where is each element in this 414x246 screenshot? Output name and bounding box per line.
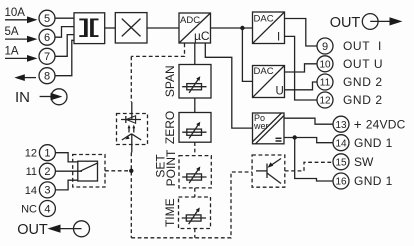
label SET POINT bbox=[154, 149, 179, 186]
wire terminal 1 to relay bbox=[55, 153, 77, 162]
svg-text:OUT: OUT bbox=[17, 222, 48, 238]
OUT symbol bottom left bbox=[17, 221, 89, 238]
input arrow 5A bbox=[5, 36, 38, 43]
chain wire SPAN to ZERO bbox=[194, 98, 196, 113]
svg-text:1A: 1A bbox=[5, 46, 19, 58]
power unit bbox=[253, 113, 285, 144]
svg-text:5: 5 bbox=[44, 13, 50, 25]
DAC U block bbox=[253, 66, 285, 98]
svg-text:wer: wer bbox=[253, 121, 269, 131]
chain wire SET POINT to TIME (dashed) bbox=[194, 188, 196, 197]
terminal 15 bbox=[333, 154, 349, 170]
svg-text:6: 6 bbox=[44, 32, 50, 44]
terminal 16 bbox=[333, 173, 349, 189]
svg-text:SW: SW bbox=[354, 155, 374, 169]
svg-text:+: + bbox=[354, 117, 362, 132]
power feed wire ADC to power unit bbox=[205, 43, 252, 128]
terminal 2 bbox=[39, 163, 55, 179]
terminal 10 bbox=[317, 56, 333, 72]
wire DAC U to terminal 10 bbox=[285, 64, 318, 72]
terminal 12 bbox=[317, 92, 333, 108]
wire out of optocoupler bbox=[131, 134, 133, 153]
svg-text:5A: 5A bbox=[5, 26, 19, 38]
SPAN trimmer P1 bbox=[179, 65, 211, 99]
SET POINT trimmer P3 (dashed box) bbox=[179, 156, 211, 188]
svg-text:ADC: ADC bbox=[180, 15, 200, 26]
svg-text:12: 12 bbox=[25, 148, 37, 160]
wire power to terminal 14 bbox=[284, 138, 333, 143]
terminal 11 bbox=[317, 74, 333, 90]
ZERO trimmer P2 bbox=[179, 113, 211, 143]
terminal 13 bbox=[333, 116, 349, 132]
OUT symbol top right bbox=[330, 14, 403, 31]
transistor Q1 (switching output, dashed box) bbox=[252, 155, 285, 187]
TIME trimmer P4 (dashed box) bbox=[179, 197, 211, 229]
svg-text:TIME: TIME bbox=[163, 198, 177, 227]
relay contact K1 bbox=[73, 155, 105, 188]
terminal 14 bbox=[333, 135, 349, 151]
wire transformer to multiplier bbox=[105, 27, 116, 29]
svg-text:1: 1 bbox=[44, 148, 50, 160]
svg-text:GND 2: GND 2 bbox=[343, 75, 383, 89]
dashed bottom bus bbox=[131, 172, 252, 238]
svg-text:8: 8 bbox=[44, 71, 50, 83]
svg-text:10A: 10A bbox=[5, 7, 26, 19]
terminal 7 bbox=[39, 48, 55, 64]
input arrow 10A bbox=[5, 16, 38, 23]
terminal 4 bbox=[39, 201, 55, 217]
wire DAC U to terminal 11 bbox=[285, 82, 318, 90]
svg-text:3: 3 bbox=[44, 185, 50, 197]
chain wire ZERO to SET POINT (dashed) bbox=[194, 142, 196, 155]
svg-text:POINT: POINT bbox=[164, 149, 178, 186]
wire junction to DAC U bbox=[242, 28, 252, 81]
IN symbol bbox=[15, 89, 67, 106]
wire power to terminal 13 bbox=[284, 118, 333, 124]
dashed bus left edge (lower) bbox=[130, 153, 132, 238]
wire terminal 8 to transformer bbox=[55, 40, 74, 75]
svg-text:U: U bbox=[276, 86, 284, 98]
dashed bus left edge (upper) bbox=[130, 56, 132, 102]
svg-text:µC: µC bbox=[194, 29, 210, 43]
svg-text:9: 9 bbox=[322, 41, 328, 53]
wire terminal 7 to transformer bbox=[55, 35, 74, 57]
wire terminal 2 to relay bbox=[55, 170, 82, 172]
dashed wire to relay bbox=[105, 170, 131, 172]
svg-text:I: I bbox=[277, 32, 280, 44]
svg-text:13: 13 bbox=[335, 120, 347, 131]
dashed wire transistor to terminal 15 bbox=[285, 162, 333, 171]
junction node GND1 bbox=[293, 135, 297, 139]
terminal 1 bbox=[39, 145, 55, 161]
svg-text:7: 7 bbox=[44, 51, 50, 63]
svg-text:11: 11 bbox=[26, 166, 37, 178]
wire terminal 6 to transformer bbox=[55, 27, 74, 38]
wire multiplier to ADC bbox=[147, 27, 179, 29]
optocoupler U2 bbox=[117, 114, 148, 145]
junction node bbox=[240, 26, 244, 30]
svg-text:DAC: DAC bbox=[254, 14, 274, 25]
svg-text:GND 2: GND 2 bbox=[343, 93, 383, 107]
transformer T1 bbox=[74, 13, 105, 44]
input arrow 1A bbox=[5, 55, 38, 62]
svg-text:SPAN: SPAN bbox=[163, 65, 177, 97]
wire junction to terminal 16 bbox=[295, 138, 333, 182]
terminal 9 bbox=[317, 38, 333, 54]
svg-text:11: 11 bbox=[320, 78, 331, 89]
terminal 6 bbox=[39, 29, 55, 45]
terminal 5 bbox=[39, 10, 55, 26]
chain wire ADC to SPAN trimmer bbox=[194, 43, 196, 65]
svg-text:ZERO: ZERO bbox=[163, 111, 177, 144]
svg-text:24VDC: 24VDC bbox=[366, 118, 406, 132]
svg-text:OUT I: OUT I bbox=[343, 39, 382, 53]
svg-text:OUT U: OUT U bbox=[343, 57, 383, 71]
svg-text:DAC: DAC bbox=[254, 66, 274, 77]
svg-text:10: 10 bbox=[319, 59, 331, 70]
wire terminal 3 to relay bbox=[55, 180, 77, 190]
wire ADC to DAC I bbox=[211, 27, 253, 29]
terminal 3 bbox=[39, 182, 55, 198]
junction node to relay bbox=[129, 169, 133, 173]
wire DAC I to terminal 9 bbox=[285, 19, 318, 47]
svg-text:NC: NC bbox=[21, 204, 37, 216]
svg-text:16: 16 bbox=[335, 177, 347, 188]
DAC I block bbox=[253, 12, 285, 44]
ADC / microcontroller U1 bbox=[179, 13, 211, 43]
dashed config bus from ADC bbox=[131, 44, 184, 57]
svg-text:14: 14 bbox=[25, 185, 37, 197]
wire into optocoupler bbox=[131, 102, 133, 120]
svg-text:12: 12 bbox=[319, 96, 331, 107]
wire DAC I to terminal 12 bbox=[285, 36, 318, 100]
svg-text:IN: IN bbox=[15, 89, 30, 106]
svg-text:2: 2 bbox=[44, 166, 50, 178]
chain wire TIME to bottom dashed bus bbox=[194, 229, 196, 238]
terminal 8 bbox=[39, 68, 55, 84]
svg-text:GND 1: GND 1 bbox=[354, 174, 393, 188]
svg-text:GND 1: GND 1 bbox=[354, 136, 393, 150]
wire terminal 5 to transformer bbox=[55, 17, 74, 19]
return arrow (terminal 8) bbox=[14, 74, 36, 81]
svg-text:15: 15 bbox=[335, 157, 347, 168]
svg-text:4: 4 bbox=[44, 203, 50, 215]
svg-text:14: 14 bbox=[335, 138, 347, 149]
svg-text:OUT: OUT bbox=[330, 15, 361, 31]
multiplier block bbox=[115, 13, 147, 43]
